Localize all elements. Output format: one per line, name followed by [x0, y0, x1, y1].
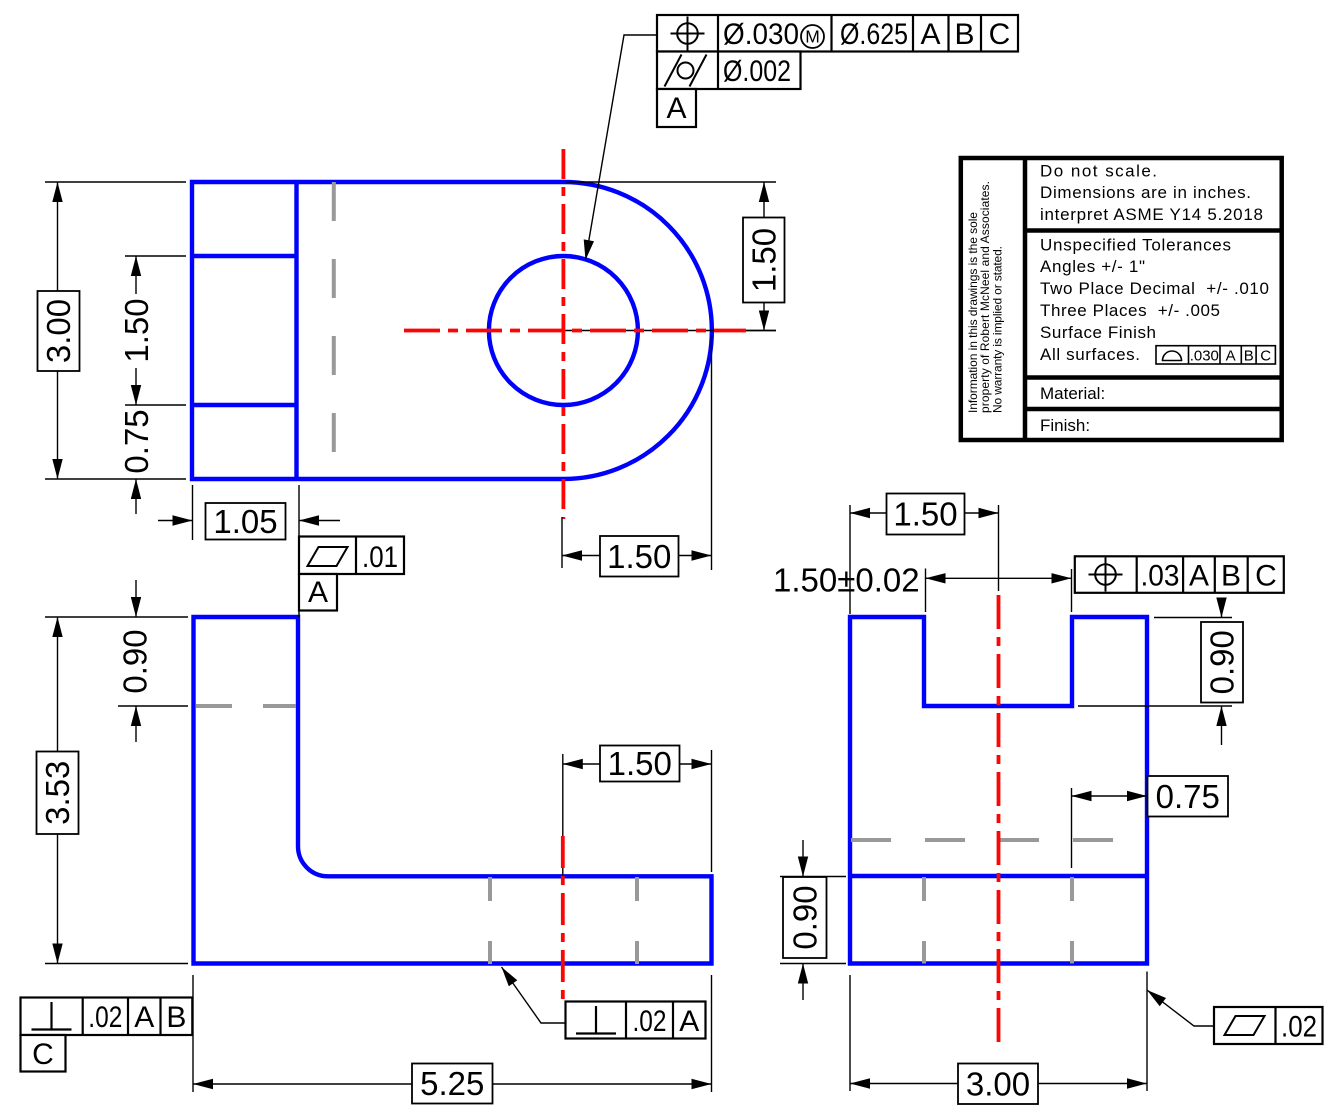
dim 1.05 label — [206, 503, 286, 540]
svg-text:Three Places +/- .005: Three Places +/- .005 — [1040, 301, 1220, 320]
svg-text:0.75: 0.75 — [1156, 778, 1220, 815]
dim 3.00 ext right — [1146, 972, 1148, 1092]
red centerline horizontal top view — [404, 329, 746, 333]
top view hole tangent edge upper — [192, 254, 297, 258]
parallelism FCF front frame — [299, 537, 404, 575]
top view hidden line (gray dashed) — [332, 182, 336, 479]
top view hole tangent edge lower — [192, 403, 297, 407]
svg-text:A: A — [134, 1001, 154, 1034]
dim 3.00 line — [850, 1083, 1147, 1085]
svg-text:0.90: 0.90 — [117, 629, 154, 693]
svg-text:1.50±0.02: 1.50±0.02 — [773, 562, 920, 599]
svg-text:0.75: 0.75 — [118, 409, 155, 473]
svg-text:1.50: 1.50 — [893, 496, 957, 533]
svg-text:B: B — [166, 1001, 186, 1034]
title block divider 1 — [1025, 228, 1282, 233]
svg-text:Surface Finish: Surface Finish — [1040, 323, 1156, 342]
svg-text:Ø.002: Ø.002 — [723, 55, 791, 88]
svg-text:A: A — [1226, 348, 1236, 365]
svg-text:1.50: 1.50 — [118, 298, 155, 362]
svg-text:A: A — [666, 92, 686, 125]
svg-text:.02: .02 — [1281, 1011, 1317, 1044]
dim 0.90 right label — [1201, 622, 1243, 703]
svg-text:Ø.030: Ø.030 — [723, 18, 799, 51]
dim 0.90 right arrows — [1221, 598, 1223, 618]
top view outline (blue) — [192, 182, 712, 479]
dim 1.50 front line — [563, 763, 712, 765]
dim 5.25 line — [193, 1083, 712, 1085]
top view inner vertical edge — [294, 182, 298, 479]
dim 1.50 side top ext left — [849, 505, 851, 614]
dim 3.00 extension bottom — [45, 478, 186, 480]
datum A box front — [299, 574, 337, 611]
dim 0.90 left arrows — [802, 840, 804, 877]
side hidden notch edge left — [922, 877, 926, 964]
perpendicularity FCF mid frame — [566, 1002, 706, 1039]
side black centerline ext — [998, 505, 1000, 591]
svg-text:Dimensions are in inches.: Dimensions are in inches. — [1040, 183, 1251, 202]
dim 5.25 ext right — [711, 975, 713, 1092]
dim 1.50 right extension top — [566, 181, 776, 183]
svg-text:Angles +/- 1": Angles +/- 1" — [1040, 257, 1145, 276]
dim 1.50 bottom extension right — [711, 335, 713, 570]
hole circle — [489, 256, 638, 405]
cylindricity FCF row2 — [657, 52, 801, 90]
datum C box — [21, 1035, 66, 1072]
dim 5.25 ext left — [192, 975, 194, 1092]
dim 1.50 bottom label — [600, 536, 679, 577]
svg-text:A: A — [679, 1005, 699, 1038]
svg-text:A: A — [1189, 560, 1209, 593]
svg-text:0.90: 0.90 — [1204, 630, 1241, 694]
svg-text:5.25: 5.25 — [420, 1065, 484, 1102]
front view outline (blue) — [194, 617, 712, 964]
dim 1.50 line — [135, 256, 137, 405]
dim 0.75 label — [1148, 776, 1229, 817]
dim 1.50 front label — [600, 746, 680, 782]
svg-text:3.00: 3.00 — [966, 1065, 1030, 1102]
svg-text:C: C — [32, 1038, 54, 1071]
dim 1.50+-0.02 line — [926, 577, 1072, 579]
dim 1.50 extension upper — [125, 255, 186, 257]
svg-text:1.50: 1.50 — [745, 228, 782, 292]
dim 3.53 label — [37, 752, 79, 835]
svg-text:1.05: 1.05 — [213, 503, 277, 540]
side hidden line fillet (gray) — [851, 838, 1147, 842]
svg-text:.01: .01 — [362, 541, 398, 574]
red centerline vertical top view — [562, 149, 566, 519]
svg-text:B: B — [1244, 348, 1254, 365]
parallelism FCF side leader — [1147, 990, 1214, 1026]
dim 1.50+-0.02 ext right — [1071, 569, 1073, 612]
svg-text:.02: .02 — [633, 1005, 667, 1038]
position symbol side — [1095, 564, 1116, 585]
dim 0.90 front ext top — [45, 616, 188, 618]
dim 1.50 front ext right — [711, 750, 713, 872]
dim 0.75 tail — [135, 479, 137, 514]
svg-text:Unspecified Tolerances: Unspecified Tolerances — [1040, 235, 1231, 254]
side hidden notch edge right — [1070, 877, 1074, 964]
svg-text:A: A — [920, 18, 940, 51]
parallelism FCF side frame — [1214, 1007, 1323, 1044]
dim 1.50 right line — [763, 182, 765, 331]
dim 0.90 right ext top — [1154, 617, 1232, 619]
perpendicularity FCF mid leader — [502, 967, 566, 1023]
svg-text:.03: .03 — [1141, 560, 1180, 593]
perpendicularity symbol mid — [595, 1006, 597, 1034]
svg-text:A: A — [308, 576, 328, 609]
dim 0.90 left ext bottom — [780, 963, 846, 965]
dim 1.50 extension lower — [125, 404, 186, 406]
position FCF row1 frame — [657, 15, 1018, 52]
svg-text:1.50: 1.50 — [607, 538, 671, 575]
title block vertical divider — [1023, 158, 1028, 440]
svg-text:Two Place Decimal +/- .010: Two Place Decimal +/- .010 — [1040, 279, 1269, 298]
title block outer frame — [961, 158, 1282, 440]
dim 0.90 left label — [783, 877, 827, 958]
position FCF side frame — [1075, 556, 1284, 593]
front red centerline — [561, 836, 565, 1005]
side red centerline — [997, 595, 1001, 1042]
svg-text:M: M — [805, 27, 820, 47]
dim 3.00 label — [38, 291, 80, 371]
dim 3.53 line — [57, 617, 59, 964]
dim 0.90 front arrows — [135, 580, 137, 617]
dim 3.00 label — [958, 1064, 1038, 1105]
cylindricity symbol — [678, 63, 694, 79]
dim 3.00 line — [57, 182, 59, 479]
dim 3.00 extension top — [45, 181, 186, 183]
perpendicularity FCF bottom-left frame — [21, 998, 193, 1036]
parallelism symbol front — [308, 547, 348, 566]
svg-text:All surfaces.: All surfaces. — [1040, 345, 1140, 364]
front hidden line step (gray) — [196, 704, 296, 708]
centerline extension black — [563, 330, 776, 332]
svg-text:B: B — [954, 18, 974, 51]
perpendicularity symbol — [50, 1002, 52, 1030]
parallelism symbol side — [1225, 1016, 1265, 1035]
title block divider 2 — [1025, 375, 1282, 380]
svg-text:C: C — [989, 18, 1011, 51]
dim 1.50 bottom extension left — [561, 517, 563, 568]
front hidden hole edge left — [488, 877, 492, 964]
dim 0.75 line — [1072, 795, 1148, 797]
svg-text:.030: .030 — [1190, 348, 1219, 365]
dim 1.05 line right tail — [299, 520, 340, 522]
dim 1.50 bottom line — [562, 555, 712, 557]
front hidden hole edge right — [635, 877, 639, 964]
datum A box top — [657, 89, 696, 127]
dim 1.50+-0.02 ext left — [925, 569, 927, 613]
dim 0.90 right ext bottom — [1078, 705, 1232, 707]
dim 1.05 extension left — [192, 485, 194, 540]
svg-text:B: B — [1221, 560, 1241, 593]
svg-text:No warranty is implied or stat: No warranty is implied or stated. — [990, 246, 1004, 413]
dim 1.05 extension right — [298, 485, 300, 536]
side view base edge — [850, 874, 1147, 878]
svg-text:interpret ASME Y14 5.2018: interpret ASME Y14 5.2018 — [1040, 205, 1263, 224]
svg-text:Material:: Material: — [1040, 384, 1105, 403]
position symbol — [677, 23, 698, 44]
svg-text:0.90: 0.90 — [786, 885, 823, 949]
svg-text:Ø.625: Ø.625 — [840, 18, 908, 51]
dim 1.50 side top label — [887, 494, 965, 535]
dim 1.05 line left tail — [158, 520, 193, 522]
svg-text:Finish:: Finish: — [1040, 416, 1090, 435]
svg-text:3.53: 3.53 — [39, 761, 76, 825]
dim 5.25 label — [412, 1064, 493, 1104]
dim 3.53 ext bottom — [45, 963, 188, 965]
side view outline (blue) — [850, 617, 1147, 964]
leader to hole — [586, 35, 658, 260]
svg-text:C: C — [1255, 560, 1277, 593]
svg-text:3.00: 3.00 — [40, 299, 77, 363]
dim 3.00 ext left — [849, 975, 851, 1091]
dim 1.50 right extension bottom — [746, 330, 776, 332]
svg-text:1.50: 1.50 — [608, 745, 672, 782]
svg-text:Do not scale.: Do not scale. — [1040, 161, 1157, 180]
dim 0.90 front ext bottom — [118, 705, 188, 707]
surface profile FCF small — [1156, 346, 1275, 364]
surface profile symbol — [1163, 351, 1182, 361]
dim 0.75 ext — [1071, 788, 1073, 868]
dim 1.50 label — [119, 294, 154, 368]
title block divider 3 — [1025, 407, 1282, 412]
parallelism FCF front attach line — [298, 611, 300, 618]
svg-text:.02: .02 — [88, 1001, 122, 1034]
dim 1.50 side top line — [850, 512, 999, 514]
front black centerline ext — [562, 754, 564, 875]
dim 0.90 left ext top — [780, 876, 846, 878]
dim 1.50 right label — [743, 218, 785, 303]
svg-text:C: C — [1260, 348, 1271, 365]
